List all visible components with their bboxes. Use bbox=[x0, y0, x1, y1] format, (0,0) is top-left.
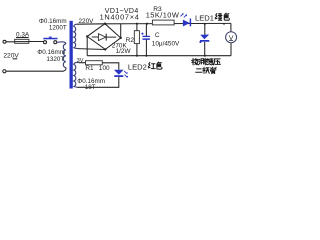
terminal J1 top-left bbox=[3, 40, 6, 43]
transformer core bbox=[70, 21, 73, 89]
label zener under test line2 bbox=[196, 69, 202, 72]
label zener under test line1 bbox=[192, 58, 199, 65]
fuse 0.3A bbox=[15, 41, 29, 43]
node voltmeter branch bbox=[223, 23, 225, 25]
svg-text:10μ/450V: 10μ/450V bbox=[152, 40, 180, 47]
svg-text:3V: 3V bbox=[77, 58, 84, 64]
node bridge right vertex bbox=[120, 37, 122, 39]
node C top junction bbox=[146, 23, 148, 25]
svg-text:C: C bbox=[155, 32, 160, 39]
wire secondary bottom to bridge AC2 bbox=[78, 48, 106, 51]
bottom rail DC- bbox=[87, 55, 231, 57]
wire secondary top to bridge bbox=[77, 23, 105, 25]
svg-text:LED1: LED1 bbox=[195, 14, 214, 23]
zener diode under test bbox=[204, 24, 206, 56]
bridge inner diode bbox=[92, 34, 116, 41]
3V winding bbox=[74, 62, 79, 87]
svg-text:R2: R2 bbox=[126, 37, 135, 44]
node C bottom junction bbox=[145, 55, 147, 57]
resistor R2 bbox=[136, 24, 138, 56]
node zener bottom junction bbox=[204, 55, 206, 57]
node R2 bottom junction bbox=[136, 55, 138, 57]
node bridge left vertex bbox=[86, 35, 88, 37]
wire switch to primary bbox=[57, 42, 66, 44]
node R2 top junction bbox=[136, 23, 138, 25]
node bridge bottom vertex bbox=[104, 48, 106, 50]
AC lead right vertex to top rail bbox=[120, 24, 122, 38]
bridge rectifier VD1-VD4 bbox=[87, 24, 121, 50]
svg-text:15K/10W: 15K/10W bbox=[146, 11, 180, 20]
LED1 bbox=[183, 20, 190, 27]
top rail DC+ bbox=[105, 22, 231, 24]
DC- lead from left vertex bbox=[86, 36, 88, 55]
svg-text:LED2: LED2 bbox=[128, 62, 147, 71]
switch S bbox=[44, 41, 47, 44]
wire input live bbox=[6, 41, 44, 43]
capacitor C bbox=[145, 24, 147, 56]
node zener top junction bbox=[204, 23, 206, 25]
terminal J2 bottom-left bbox=[3, 70, 6, 73]
node bridge top vertex bbox=[104, 23, 106, 25]
resistor R3 bbox=[152, 20, 174, 25]
transformer T primary winding bbox=[63, 44, 65, 68]
svg-text:Φ0.16mm: Φ0.16mm bbox=[37, 49, 65, 56]
switch blade bbox=[43, 38, 57, 40]
svg-text:1/2W: 1/2W bbox=[116, 48, 132, 55]
LED2 bbox=[114, 70, 124, 75]
svg-text:1320T: 1320T bbox=[46, 56, 64, 63]
secondary 220V winding bbox=[74, 24, 78, 48]
svg-text:R1 100: R1 100 bbox=[85, 65, 110, 72]
voltmeter V bbox=[230, 23, 232, 55]
wire primary bottom to neutral bbox=[6, 68, 66, 72]
svg-text:1200T: 1200T bbox=[49, 25, 67, 32]
resistor R1 bbox=[79, 63, 119, 70]
svg-text:1N4007×4: 1N4007×4 bbox=[100, 12, 140, 21]
